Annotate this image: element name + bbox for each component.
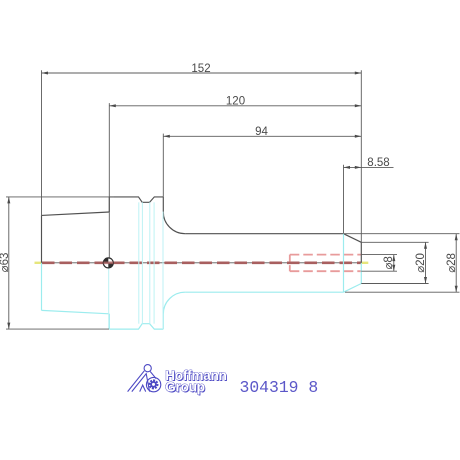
- neck line to wheel: [150, 372, 156, 379]
- flange left face top: [108, 197, 110, 212]
- dim 8.58 line: [344, 157, 394, 169]
- svg-text:⌀20: ⌀20: [415, 253, 427, 273]
- gear inside wheel: [149, 379, 159, 389]
- flange bottom with groove: [109, 324, 163, 329]
- svg-text:120: 120: [226, 96, 245, 108]
- svg-text:⌀8: ⌀8: [383, 256, 395, 269]
- dia28 bottom extension: [345, 291, 460, 293]
- dia20 bottom extension: [361, 283, 428, 285]
- chamfer bottom: [344, 284, 362, 293]
- dim dia8: [383, 255, 395, 272]
- flange left face bottom: [108, 314, 110, 329]
- svg-text:⌀63: ⌀63: [0, 253, 11, 273]
- dia28 top extension: [344, 233, 460, 235]
- dia8 bottom extension: [361, 270, 397, 272]
- taper bottom line: [42, 310, 110, 313]
- svg-text:94: 94: [255, 126, 268, 138]
- wheel outer circle: [146, 377, 160, 391]
- chamfer top: [344, 234, 362, 243]
- step edge and fillet to neck: [163, 197, 185, 234]
- groove edge vertical 4: [153, 202, 155, 323]
- right extension line (shared 152/120/94/8.58): [360, 70, 362, 242]
- dim 152 line: [42, 63, 362, 75]
- neck top edge: [185, 233, 343, 235]
- small triangle: [140, 385, 146, 392]
- body wedge outer: [128, 371, 145, 392]
- groove edge vertical 2: [141, 202, 143, 323]
- dia63 top extension: [6, 196, 114, 198]
- flange ext line below center: [108, 264, 110, 329]
- svg-text:Group: Group: [165, 380, 205, 395]
- svg-text:304319 8: 304319 8: [240, 378, 319, 397]
- hidden bore bottom (dashed pink): [290, 270, 362, 272]
- svg-text:⌀28: ⌀28: [446, 253, 458, 273]
- centerline yellow left segment: [35, 262, 42, 264]
- dim dia28: [446, 234, 458, 293]
- dia20 top extension: [361, 241, 428, 243]
- chamfer edge vertical: [343, 234, 345, 293]
- neck bottom edge: [185, 291, 343, 293]
- head: [144, 365, 151, 372]
- svg-text:8.58: 8.58: [367, 157, 389, 169]
- centerline thin continuous: [42, 262, 362, 264]
- dim dia63: [0, 197, 11, 329]
- body upper outline dark: left face: [41, 215, 43, 262]
- dim dia20: [415, 242, 427, 283]
- centerline red dashes: [42, 261, 361, 264]
- dia8 top extension: [361, 254, 397, 256]
- dim 120 line: [109, 96, 361, 108]
- end face upper: [360, 242, 362, 263]
- dim 94 line: [163, 126, 361, 138]
- groove edge vertical 1: [138, 202, 140, 323]
- body lower outline cyan: left face: [41, 263, 43, 311]
- end face lower: [360, 263, 362, 284]
- dim 120 left extension: [108, 103, 110, 258]
- dim 8.58 left extension: [343, 165, 345, 233]
- hidden bore top (dashed pink): [290, 254, 362, 256]
- body wedge inner: [132, 374, 150, 392]
- hidden bore left end (dashed pink): [289, 255, 291, 272]
- Hoffmann Group logo mark: [128, 365, 161, 392]
- dim 94 left extension: [162, 134, 164, 197]
- datum node marker at 120 extension / centerline: [103, 258, 113, 268]
- taper top line: [42, 212, 110, 215]
- svg-text:152: 152: [191, 63, 210, 75]
- centerline yellow right segment: [361, 262, 368, 264]
- dia63 bottom extension: [6, 328, 109, 330]
- step edge and fillet to neck bottom: [163, 292, 185, 329]
- groove edge vertical 3: [149, 202, 151, 323]
- flange top with groove: [109, 197, 163, 202]
- step edge silhouette vertical: [162, 212, 164, 329]
- dim 152 left extension: [41, 70, 43, 215]
